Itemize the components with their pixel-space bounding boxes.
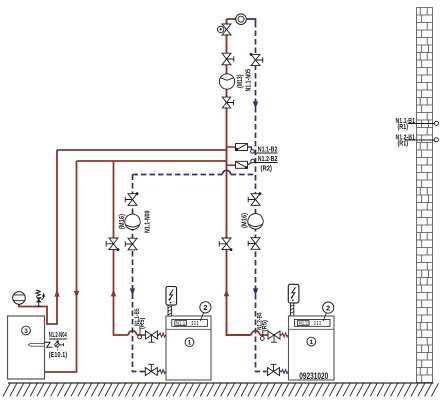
wire red branch to sensor N1.1-B2: [227, 146, 236, 148]
label circled 1 boiler2: [307, 337, 316, 346]
arrow flow down blue top branch: [253, 101, 258, 108]
svg-text:(M16): (M16): [117, 214, 126, 229]
boiler N1.2 body: [289, 316, 335, 380]
wire blue from flow meter: [247, 19, 256, 22]
flex connector boiler2 supply: [282, 333, 288, 337]
svg-text:2: 2: [326, 303, 330, 312]
shutoff valve boiler1 supply: [146, 331, 158, 339]
flex connector boiler1 return: [159, 370, 165, 374]
pump N09 right: [248, 214, 263, 229]
sensor line and circle B5 right: [262, 331, 264, 336]
svg-text:(R5): (R5): [139, 318, 146, 330]
flex connector boiler2 return: [282, 370, 288, 374]
label circled 2 boiler2: [323, 302, 334, 313]
pump N1.1-N09: [125, 214, 140, 229]
valve below pump N09 right: [251, 238, 260, 250]
wire hop over return line (boiler 1 supply): [128, 331, 136, 335]
svg-text:09231020: 09231020: [299, 371, 328, 381]
power supply box boiler2: [288, 284, 299, 303]
wire blue dashed return header: [133, 174, 256, 176]
wire boiler 1 return valve to boiler: [158, 371, 160, 373]
valve top of boiler1 return branch: [128, 194, 137, 206]
ground hatching: [3, 383, 438, 396]
svg-text:(R2): (R2): [261, 163, 273, 172]
wire red into boiler 2: [260, 334, 282, 336]
outdoor sensor circle 1: [434, 121, 438, 125]
wire blue dashed riser N05 branch: [256, 22, 267, 372]
valve on red drop x113: [109, 238, 118, 250]
svg-text:N1.2: N1.2: [299, 321, 309, 326]
wire boiler 2 return valve to boiler: [280, 371, 282, 373]
wall (brick): [417, 8, 433, 383]
svg-text:N1.1-N09: N1.1-N09: [142, 211, 151, 234]
label N1.2-B2: [254, 162, 277, 164]
pump N1.1-N05: [219, 74, 234, 89]
sensor N1.1-B2 body: [236, 144, 248, 151]
svg-text:N1.1-B2: N1.1-B2: [258, 144, 278, 153]
boiler N1.1 body: [166, 316, 211, 380]
svg-text:3: 3: [24, 328, 28, 335]
shutoff valve under motor valve: [222, 53, 231, 65]
valve below pump N09 left: [128, 238, 137, 250]
motorized valve on riser: [222, 24, 231, 35]
power supply box boiler1: [166, 287, 177, 306]
outdoor sensor circle 2: [434, 138, 438, 142]
wire blue dashed boiler 1 return: [133, 175, 146, 372]
arrow flow up x113: [111, 289, 116, 296]
power cable boiler2: [290, 303, 293, 316]
arrow flow down x76: [74, 291, 79, 298]
valve top of boiler2 return branch: [251, 194, 260, 206]
flex connector boiler1 supply: [159, 333, 165, 337]
arrow flow down blue x255: [253, 288, 258, 295]
flow meter F1 (double circle): [236, 14, 247, 25]
arrow flow up riser x57: [54, 289, 59, 296]
svg-text:(E10.1): (E10.1): [49, 350, 68, 359]
leader to outdoor sensor 2: [405, 139, 434, 141]
svg-text:N1.2-N04: N1.2-N04: [49, 330, 68, 339]
svg-text:(R1): (R1): [398, 124, 409, 131]
electric heater E10.1: [28, 343, 44, 346]
wire red into boiler 1: [137, 334, 159, 336]
boiler2 control panel: [294, 320, 330, 327]
svg-text:N1.1-N05: N1.1-N05: [244, 69, 253, 92]
node circle sensor1: [251, 150, 255, 154]
wire red riser main (to roof): [227, 19, 252, 335]
wire red supply main top: [57, 149, 227, 151]
label (E10.1): [57, 348, 59, 351]
svg-text:(M16): (M16): [240, 213, 249, 228]
svg-text:(R5): (R5): [262, 320, 269, 332]
ground line: [8, 382, 434, 384]
svg-text:N1.2-B2: N1.2-B2: [258, 154, 278, 163]
wire blue sensor2 tail: [248, 163, 252, 165]
wire hop of return header over red riser: [222, 170, 230, 174]
wire hop over return line (boiler 2 supply): [251, 331, 259, 335]
label circled 1 boiler1: [185, 338, 194, 347]
boiler1 control panel: [172, 320, 208, 327]
safety valve group: [36, 290, 40, 296]
svg-text:(R1): (R1): [398, 141, 409, 148]
wire red top to flow meter: [227, 18, 236, 20]
power cable boiler1: [168, 305, 171, 316]
shutoff valve boiler2 supply: [268, 331, 280, 339]
actuator of motorized valve: [218, 26, 224, 32]
arrow flow down blue x132: [130, 288, 135, 295]
svg-text:2: 2: [203, 303, 207, 312]
node circle sensor2: [251, 159, 255, 163]
svg-text:N1.1: N1.1: [176, 321, 186, 326]
wire red supply main second: [77, 160, 227, 162]
label circled 2 boiler1: [200, 302, 211, 313]
wire red branch to sensor N1.2-B2: [227, 164, 236, 166]
wire red return to tank: [45, 161, 77, 372]
svg-text:1: 1: [310, 339, 314, 346]
label circled 3: [22, 326, 31, 335]
svg-text:1: 1: [188, 339, 192, 346]
valve on red riser lower with dot: [222, 238, 231, 250]
expansion vessel: [13, 292, 26, 305]
valve on blue branch top with dot: [251, 54, 260, 65]
leader to outdoor sensor 1: [408, 123, 435, 125]
lightning bolt boiler2: [291, 287, 295, 298]
label N1.1-B2: [254, 152, 277, 154]
wire red riser left to expansion vessel: [19, 150, 57, 324]
panel buttons boiler2: [314, 321, 315, 322]
wire blue sensor1 tail: [248, 147, 252, 150]
lightning bolt boiler1: [169, 290, 173, 301]
shutoff valve under pump N05: [222, 97, 230, 108]
sensor N1.2-B2 body: [236, 161, 248, 168]
tank (3): [8, 316, 45, 379]
shutoff valve boiler2 return: [268, 368, 280, 376]
arrow flow up red riser: [224, 289, 229, 296]
shutoff valve boiler1 return: [145, 368, 157, 376]
panel buttons boiler1: [192, 321, 193, 322]
sensor line and circle B5 left: [139, 328, 141, 335]
wire red drop to boiler 1 supply: [114, 161, 129, 335]
